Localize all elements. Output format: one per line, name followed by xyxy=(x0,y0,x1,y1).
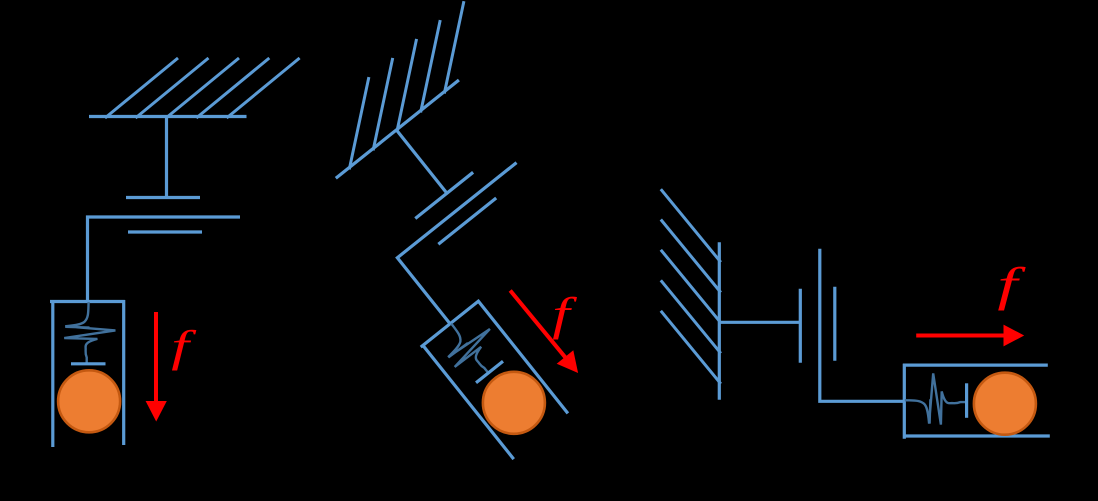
spring scribble (fig 3) xyxy=(905,373,966,424)
mass ball (fig 3) xyxy=(974,373,1036,435)
housing box (fig 3) xyxy=(903,364,1050,439)
ceiling baseline (fig 1) xyxy=(89,115,247,118)
ceiling hatching (fig 1) xyxy=(105,58,300,118)
mass ball (fig 1) xyxy=(58,370,120,432)
wall baseline (fig 2) xyxy=(336,80,459,178)
spring end plate (fig 2) xyxy=(476,361,503,383)
svg-text:f: f xyxy=(552,288,577,340)
link rod (fig 1) xyxy=(165,116,168,197)
housing box (fig 1) xyxy=(50,300,125,447)
slider plate upper (fig 2) xyxy=(415,172,473,218)
svg-text:f: f xyxy=(171,322,197,371)
wall baseline (fig 3) xyxy=(718,242,721,400)
spring scribble (fig 1) xyxy=(64,302,115,363)
spring scribble (fig 2) xyxy=(432,307,510,386)
link rod (fig 2) xyxy=(396,130,447,193)
sliding bar with elbow (fig 3) xyxy=(820,249,904,402)
housing box (fig 2) xyxy=(420,299,570,461)
spring end plate (fig 1) xyxy=(71,362,106,365)
force arrow (fig 3) xyxy=(916,325,1024,347)
wall hatching (fig 2) xyxy=(312,1,502,169)
figure 1: vertical hanging system xyxy=(50,58,300,447)
figure 3: horizontal system xyxy=(661,189,1050,439)
svg-text:f: f xyxy=(997,258,1026,311)
mass ball (fig 2) xyxy=(483,372,545,434)
spring end plate (fig 3) xyxy=(965,383,968,418)
sliding bar with elbow (fig 1) xyxy=(88,217,241,301)
figure 2: inclined system xyxy=(269,1,707,461)
slider plate upper (fig 3) xyxy=(799,289,802,363)
force arrow (fig 1) xyxy=(146,312,167,422)
slider plate lower (fig 3) xyxy=(833,287,836,361)
wall hatching (fig 3) xyxy=(661,189,721,384)
sliding bar with elbow (fig 2) xyxy=(397,163,569,324)
slider plate upper (fig 1) xyxy=(126,196,200,199)
slider plate lower (fig 2) xyxy=(438,198,496,244)
slider plate lower (fig 1) xyxy=(128,230,202,233)
force arrow (fig 2) xyxy=(510,291,578,374)
link rod (fig 3) xyxy=(719,321,800,324)
